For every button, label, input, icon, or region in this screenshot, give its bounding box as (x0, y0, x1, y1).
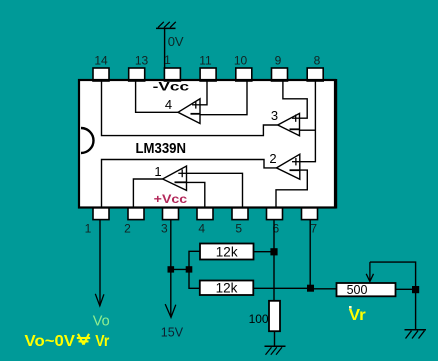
svg-text:10: 10 (234, 54, 248, 68)
resistor R3 100 (269, 301, 280, 331)
IC U1 LM339N body (79, 80, 335, 208)
wire comparator4 output to pin 13 (136, 80, 178, 112)
svg-text:Vr: Vr (95, 333, 109, 350)
wire wiper to right terminal (370, 262, 416, 289)
junction node R divider (186, 266, 193, 272)
svg-text:12k: 12k (216, 245, 238, 260)
arrow head Vo (95, 294, 104, 306)
wire junction2 up to R1 (189, 251, 200, 269)
pin 1 stub (93, 208, 109, 220)
op-amp U1D (comparator 4) (178, 99, 200, 124)
wire comparator3 output to pin 14 (102, 80, 278, 136)
svg-text:+Vcc: +Vcc (154, 194, 188, 206)
ground symbol right (405, 330, 427, 339)
wire junction4 to potentiometer (311, 288, 337, 290)
svg-text:0V: 0V (168, 34, 184, 49)
op-amp U1B (comparator 2) (277, 154, 300, 179)
wire comparator1 + input to pin 5 (187, 173, 243, 207)
svg-text:500: 500 (347, 283, 368, 297)
pin 14 stub (93, 68, 109, 81)
IC body border (79, 80, 335, 208)
svg-text:7: 7 (310, 222, 317, 236)
svg-text:Vo: Vo (93, 314, 110, 330)
potentiometer VR1 500 (337, 283, 396, 297)
wire pin 8 to comparator2 + input (300, 80, 316, 162)
svg-text:11: 11 (199, 54, 212, 68)
IC notch (81, 128, 94, 153)
wire pin12 to top ground (164, 28, 166, 69)
wire comparator3 - input to pin8 net (300, 129, 316, 131)
svg-text:1: 1 (85, 222, 92, 236)
pin 2 stub (128, 208, 144, 220)
wire comparator4 - input to pin 10 (200, 80, 247, 115)
pin 3 stub (163, 208, 179, 220)
ground symbol 0V (top) (156, 22, 176, 29)
pin 10 stub (236, 68, 252, 81)
annotation inverted-yen glyph (77, 334, 90, 345)
pin 6 stub (267, 208, 283, 220)
resistor R1 12k (200, 244, 254, 260)
svg-text:2: 2 (269, 151, 276, 166)
ground symbol under R3 (265, 346, 286, 355)
svg-text:4: 4 (198, 222, 205, 236)
resistor R2 12k (200, 281, 254, 296)
svg-text:Vo~0V: Vo~0V (25, 333, 76, 350)
wire junction to right ground (415, 290, 417, 330)
pin 13 stub (129, 68, 145, 81)
svg-text:1: 1 (164, 53, 171, 67)
junction pin7 net (307, 285, 314, 292)
svg-text:-Vcc: -Vcc (153, 82, 190, 94)
wire junction2 down to R2 (189, 269, 200, 288)
pin 5 stub (232, 208, 248, 220)
svg-text:14: 14 (94, 54, 108, 68)
dot above Vr (349, 306, 352, 309)
svg-text:3: 3 (161, 222, 168, 236)
svg-text:15V: 15V (161, 325, 184, 339)
op-amp U1C (comparator 3) (278, 113, 300, 135)
pin 4 stub (197, 208, 213, 220)
wire R2 right to pin7 junction (253, 287, 310, 289)
wire pin 11 to comparator4 + input (200, 80, 207, 105)
pin 12 stub (164, 68, 180, 81)
svg-text:100: 100 (249, 312, 269, 326)
wire pin 1 down to Vo arrow (99, 220, 101, 306)
svg-text:12k: 12k (216, 281, 238, 296)
svg-text:Vr: Vr (349, 307, 366, 324)
junction pin6 net (270, 248, 277, 255)
op-amp U1A (comparator 1) (163, 166, 187, 190)
wire pin 7 down (309, 220, 311, 288)
wire R1 right to pin6 junction (254, 251, 275, 253)
IC right edge extra thickness (336, 79, 338, 209)
svg-text:5: 5 (235, 222, 242, 236)
svg-text:LM339N: LM339N (136, 140, 187, 157)
wire R3 to ground (274, 331, 276, 346)
wire pin 9 to comparator3 + input (283, 80, 307, 118)
pin 9 stub (272, 68, 288, 81)
wire comparator2 output to pin 1 (102, 160, 277, 208)
wire VR1 right terminal (396, 288, 416, 290)
svg-text:4: 4 (165, 97, 172, 112)
svg-text:1: 1 (154, 164, 161, 179)
svg-text:13: 13 (135, 54, 149, 68)
pin 7 stub (302, 208, 318, 220)
svg-text:9: 9 (275, 54, 282, 68)
arrow head 15V (165, 304, 176, 317)
pin 11 stub (200, 68, 216, 81)
pin 8 stub (307, 68, 323, 81)
wire junction1 to junction2 (171, 268, 189, 270)
wire pin 3 down to 15V arrow (170, 220, 172, 317)
svg-text:3: 3 (271, 108, 278, 123)
wiper arrow of VR1 (366, 262, 373, 281)
svg-text:8: 8 (314, 54, 321, 68)
svg-text:2: 2 (124, 222, 131, 236)
wire pin 6 down to R3 (273, 220, 275, 301)
wire comparator2 - input to pin 6 (276, 170, 307, 207)
wire comparator1 output to pin 2 (133, 179, 162, 207)
junction VR1 right (412, 286, 419, 293)
wire comparator1 - input to pin 4 (187, 182, 205, 207)
junction on pin3 wire (168, 266, 175, 272)
